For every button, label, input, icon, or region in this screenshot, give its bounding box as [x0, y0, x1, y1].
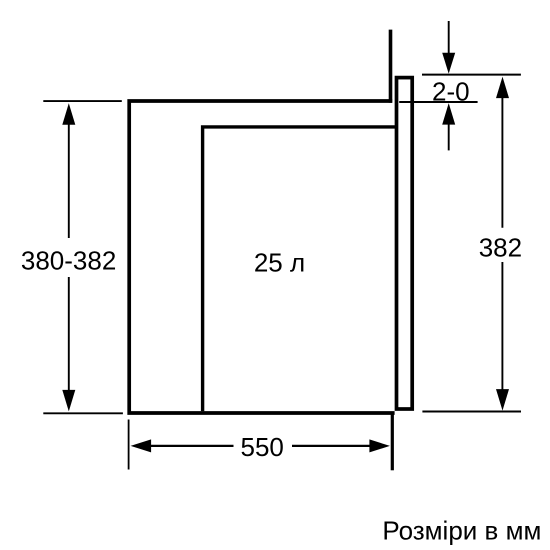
svg-text:25 л: 25 л: [254, 247, 305, 277]
svg-text:2-0: 2-0: [432, 76, 470, 106]
svg-text:382: 382: [479, 232, 522, 262]
svg-text:Розміри в мм: Розміри в мм: [382, 516, 541, 546]
svg-text:380-382: 380-382: [21, 246, 116, 276]
svg-text:550: 550: [241, 432, 284, 462]
